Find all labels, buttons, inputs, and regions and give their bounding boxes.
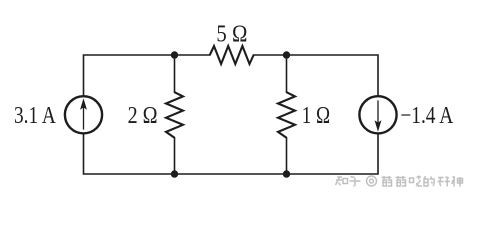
svg-text:3.1 A: 3.1 A (14, 103, 56, 129)
current source I2 circle (359, 96, 396, 133)
svg-text:2 Ω: 2 Ω (128, 103, 158, 129)
watermark char da (410, 176, 423, 187)
current source I2 arrow (375, 100, 381, 130)
resistor R3 1-ohm zigzag (278, 92, 295, 138)
watermark char xuan (438, 177, 451, 187)
wire top-right segment (254, 55, 378, 95)
watermark char meng1 (382, 176, 392, 186)
current source I1 arrow (81, 99, 87, 129)
node junction dot top-right (283, 51, 290, 58)
wire 1-ohm branch top (286, 55, 288, 92)
watermark char meng2 (396, 176, 406, 186)
resistor R2 2-ohm zigzag (166, 92, 183, 138)
current source I1 circle (65, 96, 102, 133)
watermark char shen (452, 176, 463, 187)
wire top-left segment (84, 55, 210, 95)
wire 1-ohm branch bottom (286, 138, 288, 174)
watermark char zhi (336, 177, 348, 186)
svg-text:−1.4 A: −1.4 A (400, 103, 454, 129)
node junction dot bottom-right (283, 170, 290, 177)
wire 2-ohm branch top (174, 55, 176, 92)
wire 2-ohm branch bottom (174, 138, 176, 174)
svg-text:5 Ω: 5 Ω (216, 22, 247, 48)
svg-text:1 Ω: 1 Ω (302, 103, 330, 129)
node junction dot top-left (171, 51, 178, 58)
watermark char de (424, 176, 434, 186)
resistor R1 5-ohm zigzag (210, 46, 254, 64)
watermark at-sign (367, 176, 377, 186)
wire bottom (84, 135, 379, 174)
watermark zhihu text (336, 176, 463, 187)
watermark char hu (350, 177, 361, 187)
node junction dot bottom-left (171, 170, 178, 177)
